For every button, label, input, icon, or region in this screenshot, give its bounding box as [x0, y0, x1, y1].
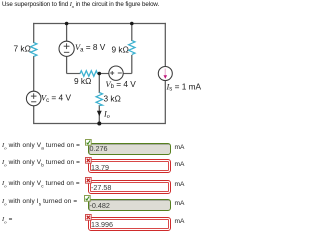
source Vb circle — [109, 66, 123, 80]
answer row 4 label — [2, 198, 77, 206]
svg-text:9 kΩ: 9 kΩ — [74, 76, 91, 86]
svg-text:Va = 8 V: Va = 8 V — [75, 42, 106, 53]
answer row 3 box (incorrect) — [88, 180, 171, 194]
wire top — [33, 23, 166, 25]
source Vc minus — [31, 101, 36, 103]
current source Is circle — [158, 67, 172, 81]
node junction mid — [98, 72, 102, 76]
wire Va-top — [66, 24, 68, 42]
svg-text:Vb = 4 V: Vb = 4 V — [106, 79, 137, 90]
source Va minus — [64, 51, 69, 53]
wire bottom — [33, 123, 166, 125]
node junction top-Va — [65, 22, 69, 26]
current source Is arrow shaft — [164, 69, 166, 76]
node junction bottom — [97, 122, 101, 126]
answer row 2 value — [91, 163, 109, 172]
answer row 5 label — [2, 216, 13, 224]
svg-text:7 kΩ: 7 kΩ — [14, 44, 31, 54]
wire Va-bottom — [66, 56, 68, 73]
answer row 1 label — [2, 142, 80, 150]
answer row 4 box (correct) — [88, 199, 171, 212]
wire left-top — [33, 23, 35, 43]
answer row 1 unit — [175, 144, 185, 151]
resistor 9k vertical — [129, 41, 135, 55]
wire left-bottom — [33, 106, 35, 124]
answer row 4 unit — [175, 200, 185, 207]
answer row 4 check icon — [84, 195, 91, 202]
wire 3k-top — [98, 74, 100, 94]
wire middle-left — [67, 73, 81, 75]
answer row 3 label — [2, 180, 80, 188]
answer row 3 cross icon — [85, 177, 92, 184]
answer row 5 unit — [175, 218, 185, 225]
answer row 5 cross icon — [85, 214, 92, 221]
source Va plus — [64, 43, 70, 52]
answer row 2 label — [2, 159, 80, 167]
resistor 7k — [31, 43, 37, 57]
answer row 4 value — [90, 201, 110, 210]
node junction top-9k — [130, 22, 134, 26]
answer row 2 cross icon — [85, 157, 92, 164]
answer row 3 value — [91, 183, 111, 192]
source Vb minus — [118, 72, 122, 74]
title — [2, 1, 159, 9]
svg-text:Vc = 4 V: Vc = 4 V — [41, 93, 71, 104]
wire 9k-vert-bottom — [131, 55, 133, 74]
wire 9k-vert-top — [131, 24, 133, 42]
answer row 2 unit — [175, 161, 185, 168]
answer row 1 box (correct) — [88, 143, 171, 156]
source Vc plus — [31, 93, 37, 102]
answer row 5 box (incorrect) — [88, 217, 171, 231]
wire right-bottom — [164, 80, 166, 123]
wire right-top — [164, 23, 166, 67]
svg-text:Io: Io — [103, 110, 110, 121]
answer row 3 unit — [175, 181, 185, 188]
wire 3k-bottom — [98, 105, 100, 124]
wire Vb-to-9k — [123, 73, 132, 75]
answer row 2 box (incorrect) — [88, 159, 171, 173]
svg-text:3 kΩ: 3 kΩ — [104, 94, 121, 104]
wire left-mid — [33, 56, 35, 92]
resistor 9k horizontal — [80, 71, 98, 77]
answer row 5 value — [91, 220, 113, 229]
source Va circle — [59, 41, 74, 56]
answer row 1 check icon — [85, 139, 92, 146]
wire middle-right — [97, 73, 109, 75]
source Vc circle — [26, 91, 41, 106]
svg-text:9 kΩ: 9 kΩ — [112, 44, 129, 54]
source Vb plus — [110, 71, 122, 75]
resistor 3k — [96, 93, 102, 106]
current Io arrowhead — [97, 111, 102, 116]
answer row 1 value — [90, 144, 108, 153]
circuit schematic — [0, 0, 211, 140]
svg-text:Is = 1 mA: Is = 1 mA — [166, 81, 202, 92]
current source Is arrowhead — [164, 75, 168, 79]
